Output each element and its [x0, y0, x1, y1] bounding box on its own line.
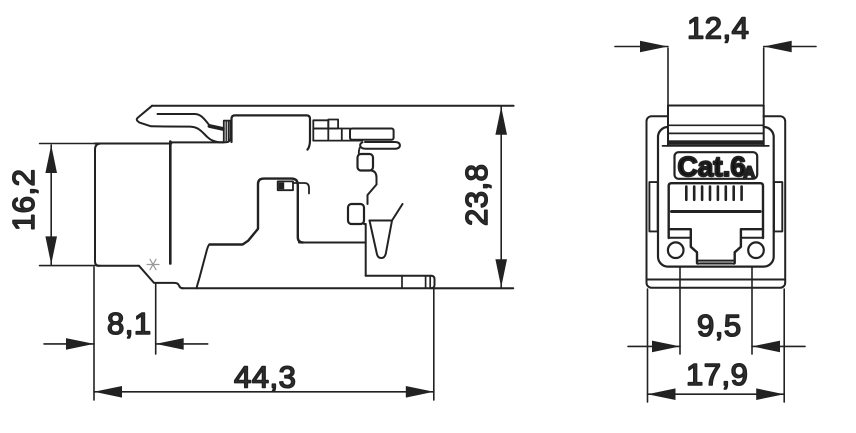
svg-text:23,8: 23,8	[459, 164, 494, 226]
svg-text:44,3: 44,3	[234, 360, 296, 395]
svg-text:16,2: 16,2	[6, 169, 41, 231]
svg-text:12,4: 12,4	[687, 11, 749, 46]
svg-text:8,1: 8,1	[107, 306, 152, 341]
svg-text:17,9: 17,9	[686, 357, 748, 392]
svg-text:9,5: 9,5	[697, 308, 742, 343]
svg-text:A: A	[744, 165, 756, 182]
svg-text:Cat.6: Cat.6	[678, 151, 746, 182]
